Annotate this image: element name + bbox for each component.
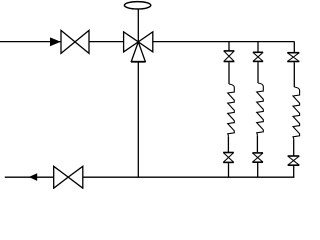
actuator stem — [137, 9, 139, 42]
flow arrow return (points left) — [29, 173, 37, 181]
wire: supply line left segment — [0, 41, 61, 43]
valve V7 (branch 2 bottom) — [252, 153, 263, 162]
wire: return line left of valve V3 — [5, 176, 54, 178]
radiator coil E3 — [293, 87, 300, 139]
wire: supply line between V1 and three-way valve V2 — [89, 41, 124, 43]
wire: branch 2 valve to coil — [257, 62, 259, 83]
wire: branch 1 to return line — [228, 163, 230, 177]
wire: branch 3 to return line — [293, 166, 295, 178]
wire: branch 2 drop — [257, 42, 259, 52]
valve V1 (supply shut-off, bowtie) — [61, 30, 89, 53]
valve V5 (branch 1 bottom) — [223, 153, 234, 163]
radiator coil E2 — [257, 83, 264, 135]
valve V6 (branch 2 top) — [253, 52, 263, 61]
wire: bypass stem down to return line — [137, 62, 139, 177]
valve V4 (branch 1 top) — [224, 51, 235, 62]
wire: coil E1 to valve V5 — [227, 136, 229, 152]
wire: coil E2 to valve V7 — [256, 135, 258, 152]
valve V9 (branch 3 bottom) — [288, 156, 300, 165]
flow arrow supply (points right) — [50, 37, 61, 46]
wire: branch 3 drop (corner from supply line) — [293, 42, 295, 53]
actuator M1 (ellipse head) — [124, 2, 150, 9]
three-way valve V2 — [124, 32, 153, 62]
valve V3 (return shut-off, bowtie) — [54, 166, 83, 188]
wire: return line right of valve V3 — [83, 176, 294, 178]
wire: branch 3 valve to coil — [293, 62, 295, 87]
wire: coil E3 to valve V9 — [293, 139, 295, 155]
wire: branch 2 to return line — [257, 163, 259, 178]
wire: branch 1 valve to coil — [228, 62, 230, 84]
valve V8 (branch 3 top) — [287, 53, 299, 62]
wire: supply line from V2 to branch 3 corner — [153, 41, 294, 43]
wire: branch 1 drop — [228, 42, 230, 51]
radiator coil E1 — [228, 84, 235, 136]
